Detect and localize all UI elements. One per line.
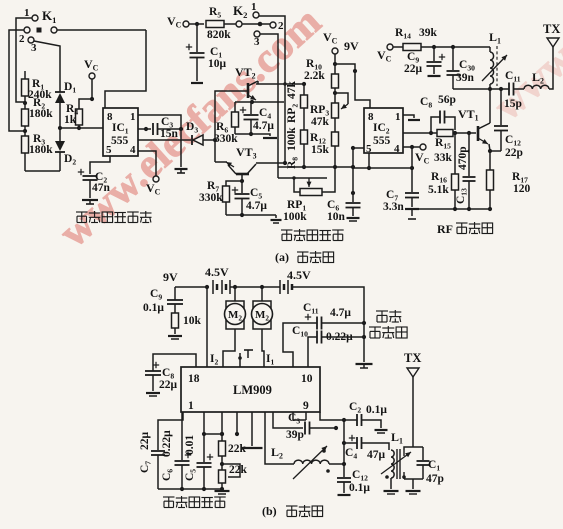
svg-text:0.01: 0.01 bbox=[184, 435, 196, 455]
wire tank bottom bbox=[453, 87, 509, 91]
IC2 pin 1 bbox=[395, 111, 401, 123]
label R14 39k bbox=[395, 27, 438, 41]
node VT3 base bbox=[240, 175, 244, 183]
wire LM909 pin1 to loop filter bbox=[158, 412, 183, 450]
antenna TX receiver bbox=[404, 351, 421, 447]
node VC-R4 bbox=[90, 97, 94, 101]
wire IC2 pin5 bbox=[351, 146, 371, 170]
op-amp IC1 555 box bbox=[103, 108, 138, 156]
wire R5 to K2 bbox=[224, 23, 236, 25]
label C2 47n bbox=[92, 171, 111, 194]
svg-text:22μ: 22μ bbox=[404, 63, 423, 75]
svg-text:47n: 47n bbox=[92, 182, 111, 194]
svg-text:4: 4 bbox=[130, 144, 136, 156]
label C9 22u bbox=[404, 51, 423, 75]
svg-text:47k: 47k bbox=[286, 81, 298, 100]
wire M2 right to pin bbox=[262, 329, 264, 367]
resistor R15 bbox=[437, 130, 453, 137]
resistor R17 bbox=[487, 151, 494, 209]
wire D junction to IC1 bbox=[60, 127, 103, 129]
switch K1 terminal 2 bbox=[19, 33, 34, 45]
VC terminal IC2 bbox=[415, 144, 430, 166]
resistor 22k upper bbox=[219, 412, 226, 470]
wire VC to R4 bbox=[79, 79, 92, 109]
svg-text:3: 3 bbox=[254, 36, 260, 48]
capacitor C9 electrolytic bbox=[427, 47, 446, 74]
switch K2 terminal 2 bbox=[270, 20, 284, 32]
capacitor C10 demod bbox=[308, 331, 322, 368]
svg-text:1: 1 bbox=[188, 400, 194, 412]
svg-text:1: 1 bbox=[251, 1, 257, 13]
svg-text:39n: 39n bbox=[456, 72, 475, 84]
label D3 bbox=[186, 121, 198, 135]
svg-text:5.1k: 5.1k bbox=[428, 184, 449, 196]
svg-text:100k: 100k bbox=[283, 211, 307, 223]
node D1-D2 junction bbox=[58, 126, 62, 130]
svg-text:10: 10 bbox=[301, 373, 313, 385]
transistor VT2 bbox=[235, 65, 258, 100]
svg-text:RF: RF bbox=[437, 222, 453, 236]
node 9V junction bbox=[333, 54, 337, 66]
wire 9V feed bbox=[175, 285, 209, 289]
IC2 pin 4 bbox=[394, 143, 400, 155]
capacitor C1 receiver bbox=[417, 447, 430, 479]
label RP1 100k bbox=[283, 199, 307, 223]
label C2 0.1u bbox=[349, 401, 387, 416]
svg-text:2: 2 bbox=[19, 33, 25, 45]
capacitor C11 RF bbox=[509, 83, 514, 96]
label L1 bbox=[489, 30, 501, 46]
battery B2 4.5V bbox=[280, 268, 311, 294]
label C7 rotated bbox=[139, 432, 153, 474]
ground below C2 bbox=[82, 180, 98, 204]
capacitor C2 bbox=[78, 169, 98, 180]
wire K2-3 branch bbox=[260, 34, 278, 178]
IC1 label bbox=[112, 122, 129, 136]
capacitor C12 bbox=[490, 89, 508, 151]
svg-text:39k: 39k bbox=[419, 27, 438, 39]
node R2-R3 junction bbox=[23, 129, 27, 133]
svg-text:56p: 56p bbox=[438, 94, 456, 106]
wire VT1 emitter bbox=[488, 144, 492, 153]
svg-text:1: 1 bbox=[130, 111, 136, 123]
node top of RP2 rail bbox=[302, 82, 306, 86]
caption loop filter bbox=[163, 496, 226, 508]
switch K1 terminal 3 bbox=[31, 42, 37, 54]
wire C11 to rail bbox=[321, 321, 366, 325]
svg-text:1k: 1k bbox=[64, 114, 77, 126]
svg-text:4.5V: 4.5V bbox=[287, 268, 311, 282]
wire from K1 terminal 1 to left rail bbox=[16, 18, 32, 102]
caption (a) transmitter bbox=[275, 250, 334, 264]
resistor R2 bbox=[22, 103, 29, 131]
VC terminal RF bbox=[377, 44, 393, 64]
capacitor C6 loop bbox=[175, 412, 192, 489]
label RP2 47k rotated bbox=[286, 81, 300, 124]
ground below C7 bbox=[405, 209, 419, 219]
label R2 180k bbox=[29, 97, 53, 120]
ground below C6 bbox=[347, 208, 360, 221]
motor M2 right bbox=[252, 287, 273, 329]
wire VT1 collector bbox=[489, 89, 491, 123]
svg-text:470p: 470p bbox=[457, 146, 469, 170]
capacitor C5 loop bbox=[197, 412, 214, 489]
label D1 bbox=[64, 81, 76, 95]
wire tank bottom right bbox=[404, 479, 423, 494]
wire VC to R5 bbox=[189, 22, 204, 26]
resistor R12 bbox=[332, 118, 339, 167]
wire pin bottom stubs bbox=[293, 412, 306, 420]
label 10k bbox=[183, 315, 202, 327]
svg-text:(b): (b) bbox=[262, 504, 277, 518]
ground below 10k bbox=[168, 336, 182, 339]
svg-text:10μ: 10μ bbox=[208, 58, 227, 70]
label 22k lower bbox=[229, 464, 248, 476]
node C10 top bbox=[451, 45, 490, 49]
svg-text:22k: 22k bbox=[229, 464, 248, 476]
svg-text:TX: TX bbox=[404, 351, 421, 365]
transistor VT3 bbox=[226, 145, 257, 174]
capacitor C7 bbox=[405, 168, 419, 207]
capacitor C8 bbox=[431, 111, 455, 134]
svg-text:4.7μ: 4.7μ bbox=[330, 307, 351, 319]
IC1 pin 4 bbox=[130, 144, 136, 156]
switch K1 terminal 1 bbox=[24, 7, 38, 21]
wire C3 to tank bbox=[309, 426, 338, 430]
svg-text:TX: TX bbox=[543, 22, 560, 36]
label R15 33k bbox=[434, 137, 453, 164]
ground below C8 receiver bbox=[146, 375, 160, 396]
wire pin9 to C3 receiver bbox=[273, 412, 303, 428]
LM909 label bbox=[233, 383, 272, 397]
wire bottom of R chain bbox=[25, 170, 60, 172]
capacitor C6 bbox=[346, 148, 361, 208]
label C12 0.1u bbox=[349, 469, 370, 494]
wire RF bottom rail bbox=[412, 207, 492, 211]
ground below C3 node bbox=[175, 140, 188, 173]
transistor VT1 bbox=[458, 107, 490, 144]
resistor R3 bbox=[22, 131, 29, 171]
VC terminal audio bbox=[167, 14, 189, 30]
svg-text:9V: 9V bbox=[344, 39, 359, 53]
resistor R14 bbox=[393, 44, 421, 51]
label C13 470p rotated bbox=[457, 146, 469, 170]
svg-text:820k: 820k bbox=[207, 29, 231, 41]
capacitor C4 receiver bbox=[344, 435, 389, 450]
svg-text:10k: 10k bbox=[183, 315, 202, 327]
wire RP3 wiper feed bbox=[335, 93, 348, 104]
capacitor C3 bbox=[153, 123, 158, 135]
label C1 47p bbox=[426, 459, 444, 485]
svg-text:33k: 33k bbox=[434, 152, 453, 164]
label R5 820k bbox=[207, 6, 231, 41]
label R7 330k bbox=[199, 180, 223, 204]
label I2 bbox=[210, 353, 218, 367]
wire audio mid rail bbox=[278, 165, 353, 169]
wire RF mid rail bbox=[353, 166, 414, 170]
VC terminal below IC1 bbox=[146, 176, 161, 197]
svg-text:22μ: 22μ bbox=[139, 432, 151, 451]
capacitor C2 receiver bbox=[344, 414, 388, 433]
svg-text:0.1μ: 0.1μ bbox=[349, 482, 370, 494]
wire C10 to rail bbox=[321, 335, 366, 339]
label C6 rotated bbox=[161, 430, 175, 481]
VC terminal top left bbox=[84, 57, 99, 79]
label R17 120 bbox=[512, 171, 531, 195]
label C5 4.7u bbox=[246, 187, 267, 212]
svg-text:22p: 22p bbox=[505, 147, 523, 159]
IC LM909 box bbox=[181, 367, 320, 412]
svg-text:(a): (a) bbox=[275, 250, 289, 264]
wire VT3 emitter to frame bbox=[215, 140, 227, 162]
wire K2-1 to right rail bbox=[259, 16, 287, 165]
node R6-C4 bottom bbox=[235, 132, 253, 136]
wire IC1 to C3 bbox=[138, 127, 151, 131]
svg-text:39p: 39p bbox=[286, 429, 304, 441]
svg-text:2.2k: 2.2k bbox=[304, 70, 325, 82]
svg-text:22μ: 22μ bbox=[159, 379, 178, 391]
node VT2 emitter bbox=[250, 100, 254, 104]
svg-text:4: 4 bbox=[394, 143, 400, 155]
wire loop filter bottom rail bbox=[158, 487, 224, 491]
label C10 0.22u bbox=[292, 325, 353, 343]
transformer L1 receiver bbox=[381, 430, 411, 479]
wire VT2 emitter row bbox=[235, 101, 284, 103]
svg-text:3: 3 bbox=[31, 42, 37, 54]
label R16 5.1k bbox=[428, 171, 449, 196]
capacitor C8 receiver bbox=[145, 354, 196, 375]
wire VT2 base frame bbox=[215, 91, 248, 140]
svg-text:4.7μ: 4.7μ bbox=[253, 120, 274, 132]
svg-text:100k: 100k bbox=[286, 127, 298, 151]
svg-text:330k: 330k bbox=[214, 133, 238, 145]
LM909 pin 18 bbox=[188, 373, 200, 385]
node R10 bottom bbox=[333, 88, 337, 95]
ground loop filter bbox=[215, 491, 230, 494]
IC1 555 label bbox=[111, 135, 129, 147]
wire VT3 collector bbox=[256, 162, 285, 164]
label C8 22u bbox=[159, 367, 178, 391]
wire K2 common to contact bbox=[242, 23, 270, 25]
svg-text:555: 555 bbox=[373, 135, 391, 147]
svg-text:47μ: 47μ bbox=[367, 449, 386, 461]
VC terminal 9V bbox=[323, 30, 359, 54]
svg-text:555: 555 bbox=[111, 135, 129, 147]
label C6 10n bbox=[327, 199, 346, 223]
wire B2 to right rail bbox=[292, 287, 364, 362]
ground below C1 bbox=[191, 58, 203, 83]
label C12 22p bbox=[505, 134, 523, 159]
IC2 555 label bbox=[373, 135, 391, 147]
label 9V receiver bbox=[163, 270, 178, 284]
IC2 label bbox=[373, 122, 390, 136]
caption (b) receiver bbox=[262, 504, 323, 518]
capacitor C4 electrolytic bbox=[240, 102, 259, 134]
switch K2 terminal 3 bbox=[254, 31, 260, 48]
IC1 pin 8 bbox=[107, 111, 113, 123]
label R8 100k rotated bbox=[286, 127, 300, 169]
label R3 180k bbox=[29, 133, 53, 156]
resistor 10k receiver bbox=[172, 313, 179, 334]
svg-text:2: 2 bbox=[278, 20, 284, 32]
label R4 1k bbox=[64, 103, 78, 126]
wire IC1 pin4 to VC bbox=[138, 151, 156, 176]
contact symbol between motors bbox=[238, 350, 253, 367]
wire IC2 output bbox=[403, 131, 437, 135]
op-amp IC2 555 box bbox=[364, 108, 403, 153]
svg-text:330k: 330k bbox=[199, 192, 223, 204]
wire D3 to VT3 frame bbox=[203, 138, 217, 142]
ground audio bottom bbox=[271, 215, 282, 223]
wire K1 row to IC1 pin8 bbox=[105, 30, 146, 108]
motor M2 left bbox=[225, 287, 246, 329]
label 22k upper bbox=[228, 443, 247, 455]
svg-text:3.3n: 3.3n bbox=[383, 201, 404, 213]
wire transformer bottom bbox=[384, 478, 399, 494]
wire IC1 pin1 loop to C3 node bbox=[138, 115, 181, 127]
svg-text:1: 1 bbox=[395, 111, 401, 123]
svg-text:LM909: LM909 bbox=[233, 383, 272, 397]
potentiometer RP3 bbox=[332, 93, 349, 118]
wire ground stub mid bbox=[242, 412, 263, 448]
wire VT2 collector bbox=[256, 81, 304, 86]
capacitor C11 demod bbox=[283, 314, 322, 367]
diode D1 bbox=[55, 86, 65, 128]
wire IC1 pin3 to D3 bbox=[138, 129, 191, 140]
label C5 rotated bbox=[184, 435, 198, 481]
label C11 4.7u bbox=[303, 302, 351, 319]
label C7 3.3n bbox=[383, 189, 404, 213]
capacitor C5 electrolytic bbox=[232, 181, 250, 214]
svg-text:0.1μ: 0.1μ bbox=[366, 404, 387, 416]
svg-text:18: 18 bbox=[188, 373, 200, 385]
resistor R10 bbox=[332, 64, 339, 88]
label C4 4.7u bbox=[253, 107, 274, 132]
capacitor C9 receiver bbox=[167, 287, 183, 313]
switch K2 moving contact bbox=[258, 22, 263, 27]
wire left rail receiver tank bbox=[342, 420, 346, 477]
svg-text:5: 5 bbox=[106, 144, 112, 156]
inductor L2 receiver bbox=[265, 412, 330, 479]
LM909 pin 10 bbox=[301, 373, 313, 385]
svg-text:4.5V: 4.5V bbox=[205, 265, 229, 279]
label R6 330k bbox=[214, 121, 238, 145]
svg-text:180k: 180k bbox=[29, 144, 53, 156]
label C13 rotated bbox=[455, 188, 469, 204]
ground below C4 bbox=[251, 134, 277, 138]
IC1 pin 5 bbox=[106, 144, 112, 156]
label R12 15k bbox=[310, 132, 330, 156]
resistor 22k lower bbox=[219, 470, 226, 489]
antenna TX bbox=[543, 22, 560, 89]
node R7-C5 bottom bbox=[226, 213, 244, 217]
switch K2 pole bbox=[233, 3, 247, 27]
wire IC1 pin5 to C2 bbox=[90, 156, 110, 174]
wire pin4 node down bbox=[411, 147, 413, 168]
wire IC2 pin1 to ground stub bbox=[403, 115, 420, 120]
label C11 15p bbox=[504, 70, 522, 110]
wire box corner to C2 bbox=[320, 412, 346, 422]
potentiometer RP1 bbox=[278, 167, 335, 196]
IC2 pin 5 bbox=[366, 143, 372, 155]
label demod filter line1 bbox=[376, 310, 401, 322]
label C8 56p bbox=[420, 94, 456, 110]
wire K1 common row bbox=[57, 29, 146, 31]
svg-text:180k: 180k bbox=[29, 108, 53, 120]
IC2 pin 8 bbox=[368, 111, 374, 123]
wire stub pin area bbox=[202, 412, 239, 436]
caption RF oscillator bbox=[437, 222, 493, 236]
LM909 pin 1 bbox=[188, 400, 194, 412]
wire I2 pin bbox=[206, 287, 208, 367]
svg-text:4.7μ: 4.7μ bbox=[246, 200, 267, 212]
wire IC2 pin4 to VC bbox=[403, 145, 420, 149]
capacitor C13 bbox=[463, 133, 476, 209]
wire bottom to ground bbox=[242, 214, 276, 216]
watermark bbox=[51, 0, 563, 256]
svg-text:9: 9 bbox=[303, 400, 309, 412]
wire 22k feedback bbox=[220, 462, 240, 477]
label C3 39p bbox=[286, 412, 304, 441]
wire K1 left branch bbox=[9, 30, 25, 131]
label C1 10u bbox=[208, 46, 227, 70]
wire L2 to rail bbox=[329, 462, 346, 466]
diode D2 bbox=[55, 128, 65, 171]
wire 9V to IC2 pin8 bbox=[335, 64, 370, 108]
svg-text:0.22μ: 0.22μ bbox=[161, 430, 173, 457]
resistor R5 bbox=[206, 21, 224, 28]
wire B1 to B2 bbox=[230, 285, 280, 289]
svg-text:9V: 9V bbox=[163, 270, 178, 284]
switch K1 pole contacts bbox=[24, 27, 57, 33]
capacitor C3 receiver bbox=[305, 422, 310, 435]
wire M2 left to pin bbox=[223, 329, 235, 367]
capacitor C1 electrolytic bbox=[186, 24, 205, 58]
label R10 2.2k bbox=[304, 58, 325, 82]
resistor R16 bbox=[452, 133, 459, 209]
capacitor C7 loop bbox=[151, 451, 165, 489]
wire K1 terminal 2 to D1 rail bbox=[34, 41, 60, 86]
ground below C9 bbox=[428, 75, 441, 77]
label C3 15n bbox=[160, 116, 179, 140]
inductor L1 variable bbox=[482, 46, 507, 89]
potentiometer RP2 bbox=[301, 84, 308, 108]
svg-text:0.1μ: 0.1μ bbox=[143, 302, 164, 314]
ground right rail bbox=[356, 364, 373, 368]
svg-text:15k: 15k bbox=[311, 144, 330, 156]
caption duty-cycle generator bbox=[76, 211, 152, 223]
label R1 240k bbox=[28, 78, 52, 101]
LM909 pin 9 bbox=[303, 400, 309, 412]
resistor R1 bbox=[22, 71, 29, 102]
wire transformer top right bbox=[404, 447, 423, 450]
svg-text:47p: 47p bbox=[426, 473, 444, 485]
inductor L2 bbox=[514, 70, 549, 89]
label D2 bbox=[64, 153, 76, 167]
svg-text:10n: 10n bbox=[327, 211, 346, 223]
svg-text:15n: 15n bbox=[160, 128, 179, 140]
resistor R7 bbox=[223, 181, 243, 214]
label C4 47u bbox=[345, 447, 386, 461]
battery B1 4.5V bbox=[205, 265, 230, 294]
caption audio generator bbox=[281, 229, 344, 241]
diode D3 bbox=[192, 135, 203, 145]
wire R14 to C9 node bbox=[421, 45, 453, 49]
wire R15 to VT1 base bbox=[453, 131, 476, 135]
resistor R6 bbox=[232, 102, 239, 134]
resistor R4 bbox=[76, 109, 83, 130]
label C10 39n bbox=[456, 59, 475, 84]
